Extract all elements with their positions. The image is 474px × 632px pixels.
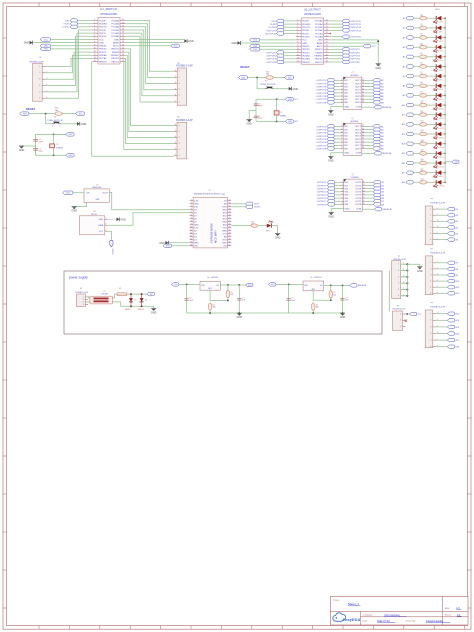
svg-text:OUT4: OUT4 <box>355 192 362 194</box>
svg-text:1: 1 <box>106 218 107 220</box>
svg-text:OUT5: OUT5 <box>355 93 362 95</box>
svg-text:Drawn By:: Drawn By: <box>406 620 416 623</box>
svg-text:5: 5 <box>430 287 431 289</box>
module U9 pins <box>190 200 232 248</box>
capacitor C1 <box>33 139 38 141</box>
svg-text:GND: GND <box>328 216 334 219</box>
resistor R15 led <box>420 152 427 156</box>
svg-text:PB0/CP: PB0/CP <box>99 61 107 63</box>
resistor R13 <box>208 303 212 310</box>
wire A11 to resistor <box>413 114 419 116</box>
svg-text:FM4007: FM4007 <box>138 309 144 311</box>
wire A9 to resistor <box>413 94 419 96</box>
svg-text:U5: U5 <box>310 277 312 279</box>
svg-text:14: 14 <box>363 191 365 193</box>
wire U7 VOUT to ESP <box>109 192 189 209</box>
svg-text:OUTPUT4: OUTPUT4 <box>316 136 327 138</box>
junction C8 top <box>342 285 344 287</box>
svg-text:24: 24 <box>122 48 124 50</box>
ground flag right of U1_SWITCH <box>184 39 187 43</box>
svg-text:TITLE:: TITLE: <box>333 600 340 602</box>
svg-text:GND: GND <box>120 218 126 221</box>
svg-text:VCC: VCC <box>66 193 71 195</box>
wire U8 VCC flag <box>107 231 111 240</box>
svg-text:2: 2 <box>430 268 431 270</box>
svg-text:2: 2 <box>341 128 342 130</box>
wire J1 pin2 to U1_SWITCH <box>45 55 92 73</box>
wire power bottom rail <box>187 312 345 314</box>
svg-text:OSC: OSC <box>69 155 74 157</box>
svg-text:REV:: REV: <box>445 608 450 610</box>
svg-text:1: 1 <box>430 313 431 315</box>
wire resistor to LED6 <box>427 66 437 68</box>
svg-text:13: 13 <box>297 57 299 59</box>
fuse F1 <box>117 293 127 296</box>
svg-text:Q?: Q? <box>351 72 354 74</box>
svg-text:2: 2 <box>39 72 40 74</box>
svg-text:4: 4 <box>342 191 343 193</box>
svg-text:A3: A3 <box>403 36 405 39</box>
svg-text:5: 5 <box>341 92 342 94</box>
net port OUTPUT15 <box>342 35 349 38</box>
resistor R14 <box>329 291 333 298</box>
wire LED6 to rail <box>441 66 445 68</box>
wire top rail power <box>127 293 147 295</box>
resistor R9 led <box>420 94 427 98</box>
svg-text:A4: A4 <box>403 46 405 49</box>
junction R15 rail <box>312 312 314 314</box>
svg-text:7: 7 <box>191 218 192 220</box>
wire resistor to LED18 <box>427 181 437 183</box>
svg-text:RV2DB3 0-0-6P: RV2DB3 0-0-6P <box>176 120 193 122</box>
svg-text:27: 27 <box>326 57 328 59</box>
wire P4 pin6 <box>436 239 448 241</box>
svg-text:13: 13 <box>362 131 364 133</box>
junction reset right <box>256 77 258 79</box>
driver Q2 body <box>343 123 362 155</box>
LED18 <box>435 180 437 185</box>
regulator U4 body <box>200 281 220 290</box>
wire Q3 output 2 <box>365 185 373 187</box>
resistor R18 led <box>420 181 427 185</box>
svg-text:14: 14 <box>362 89 364 91</box>
svg-text:PC1/A1: PC1/A1 <box>315 32 323 35</box>
resistor R11 <box>266 76 274 80</box>
net port OUTPUT12 <box>342 22 349 25</box>
net port Q2 IN6 <box>327 141 334 144</box>
wire Q3 output 7 <box>365 200 373 202</box>
svg-text:3.3V: 3.3V <box>223 234 228 236</box>
ground flag crystal right <box>247 119 252 121</box>
svg-text:OUT3: OUT3 <box>355 188 362 190</box>
svg-text:17: 17 <box>326 26 328 28</box>
resistor R17 led <box>420 171 427 175</box>
svg-text:22: 22 <box>326 42 328 44</box>
svg-text:GND: GND <box>302 43 307 45</box>
svg-text:26: 26 <box>229 227 231 229</box>
net port RST U1_OUTPUT <box>276 19 283 22</box>
junction gnd U4 <box>238 312 240 314</box>
wire C5 branch <box>186 284 188 313</box>
junction D2 top <box>141 293 143 295</box>
svg-text:PC4/A4: PC4/A4 <box>315 23 323 26</box>
wire button to gnd right <box>273 88 289 90</box>
net port OUTPUT14 <box>342 29 349 32</box>
wire U1_OUTPUT GND left <box>241 42 296 44</box>
wire P4 pin1 <box>436 208 448 210</box>
net port A13 <box>406 132 413 135</box>
net port Q1 IN1 <box>327 79 334 82</box>
net port Q2 RELAY <box>374 152 381 155</box>
svg-text:A13: A13 <box>402 133 405 136</box>
svg-text:power supply: power supply <box>69 276 88 280</box>
resistor R14 led <box>420 142 427 146</box>
wire A5 to resistor <box>413 56 419 58</box>
svg-text:6: 6 <box>403 294 404 296</box>
svg-text:ATMEGA328: ATMEGA328 <box>100 12 117 16</box>
svg-text:OUTPUT14: OUTPUT14 <box>350 30 362 32</box>
LED17 <box>435 170 437 175</box>
svg-text:ULN2803: ULN2803 <box>350 75 358 77</box>
svg-text:1: 1 <box>342 181 343 183</box>
svg-text:ADJ: ADJ <box>312 288 315 291</box>
junction LED9 rail <box>444 95 446 97</box>
svg-text:GND: GND <box>344 153 349 155</box>
svg-text:GND: GND <box>293 88 299 91</box>
svg-text:2: 2 <box>191 203 192 205</box>
svg-text:11: 11 <box>362 79 364 81</box>
svg-text:13: 13 <box>363 187 365 189</box>
net port A18 <box>406 181 413 184</box>
resistor R3 led <box>420 36 427 40</box>
svg-text:20: 20 <box>122 35 124 37</box>
wire Q3 output 1 <box>365 181 373 183</box>
svg-text:LED15: LED15 <box>439 157 444 159</box>
wire LED4 to rail <box>441 46 445 48</box>
net port A6 <box>406 65 413 68</box>
wire Q1 com <box>362 106 374 108</box>
svg-text:25: 25 <box>229 224 231 226</box>
connector P3 body <box>393 311 403 330</box>
svg-text:RV2DB3 0-0-6P: RV2DB3 0-0-6P <box>430 253 445 255</box>
svg-text:5: 5 <box>191 212 192 214</box>
mcu U1_OUTPUT body <box>301 18 324 64</box>
wire U1_OUTPUT OSC2 left <box>260 48 296 50</box>
svg-text:8: 8 <box>342 203 343 205</box>
svg-text:1: 1 <box>175 154 176 156</box>
svg-text:DATA: DATA <box>98 224 104 227</box>
net port Q2 OUT2 <box>373 128 380 131</box>
svg-text:6: 6 <box>341 95 342 97</box>
wire crystal bottom rail left <box>36 154 66 156</box>
svg-text:S?: S? <box>103 291 105 293</box>
resistor R8 led <box>420 84 427 88</box>
driver Q3 body <box>344 179 363 211</box>
svg-text:30: 30 <box>229 239 231 241</box>
svg-text:Q?: Q? <box>351 118 354 120</box>
svg-text:9: 9 <box>191 224 192 226</box>
svg-text:6: 6 <box>191 215 192 217</box>
svg-text:PD7/A1: PD7/A1 <box>99 57 107 60</box>
svg-text:18: 18 <box>229 203 231 205</box>
wire Q2 com <box>362 152 374 154</box>
junction LED5 rail <box>444 56 446 58</box>
svg-text:8: 8 <box>297 42 298 44</box>
svg-text:3: 3 <box>430 274 431 276</box>
svg-text:TX-RX2: TX-RX2 <box>254 207 261 209</box>
junction LED1 rail <box>444 17 446 19</box>
net port OUTPUT2 <box>342 51 349 54</box>
module U9 ESP8266 body <box>193 198 228 248</box>
svg-text:3: 3 <box>342 187 343 189</box>
svg-text:RV2DB3 0-0-6P: RV2DB3 0-0-6P <box>176 66 193 68</box>
mcu U1_SWITCH body <box>98 18 120 65</box>
resistor R1 led <box>420 16 427 20</box>
driver Q2 pins <box>341 124 365 155</box>
resistor R6 led <box>420 65 427 69</box>
svg-text:PC2/A2: PC2/A2 <box>315 29 323 32</box>
net port A15 <box>406 152 413 155</box>
svg-text:24: 24 <box>229 221 231 223</box>
junction crystal top right <box>276 98 278 100</box>
ground flag P2 <box>417 266 422 268</box>
wire RST row left <box>29 113 76 115</box>
svg-text:18: 18 <box>362 101 364 103</box>
wire U1_OUTPUT left output flag 5 <box>284 52 296 54</box>
wire LED1 to rail <box>441 17 445 19</box>
connector J2 body <box>177 68 187 105</box>
net port A12 <box>406 123 413 126</box>
junction LED6 rail <box>444 66 446 68</box>
svg-text:OUTPUT3: OUTPUT3 <box>316 133 327 135</box>
svg-text:OSC: OSC <box>253 49 258 51</box>
svg-text:GND: GND <box>340 316 346 319</box>
svg-text:5: 5 <box>175 76 176 78</box>
svg-text:15: 15 <box>363 194 365 196</box>
svg-text:GND: GND <box>99 219 104 221</box>
svg-text:TX-RX2: TX-RX2 <box>62 27 70 29</box>
svg-text:U4: U4 <box>207 277 209 279</box>
wire U1_SWITCH pin23 to J2 <box>125 36 174 102</box>
net port TX-RX <box>70 22 77 25</box>
svg-text:VCC: VCC <box>79 113 84 115</box>
svg-text:NET1: NET1 <box>266 231 270 233</box>
wire U1_OUTPUT left output flag 6 <box>284 55 296 57</box>
wire LED8 to rail <box>441 85 445 87</box>
svg-text:AVCC: AVCC <box>113 45 119 48</box>
wire Q1 output 8 <box>364 101 372 103</box>
svg-text:27: 27 <box>229 230 231 232</box>
resistor R12 led <box>420 123 427 127</box>
wire Q2 input 1 <box>334 125 340 127</box>
svg-text:XC1: XC1 <box>294 99 298 101</box>
svg-text:29: 29 <box>229 236 231 238</box>
wire U1_OUTPUT right flag OUTPUT15 <box>329 36 342 38</box>
net port Q1 IN6 <box>327 94 334 97</box>
junction LED18 rail <box>444 181 446 183</box>
svg-text:S1: S1 <box>265 81 267 83</box>
svg-text:LED2: LED2 <box>439 31 443 33</box>
ground flag U1_OUTPUT left <box>237 41 240 45</box>
svg-text:PC5/A5: PC5/A5 <box>111 19 119 22</box>
svg-text:A18: A18 <box>402 181 405 184</box>
svg-text:VCC: VCC <box>302 40 307 42</box>
svg-text:PD4/T0: PD4/T0 <box>99 36 107 38</box>
net port TX-RX2 <box>70 25 77 28</box>
junction adj U5 <box>330 299 332 301</box>
svg-text:OUTPUT4: OUTPUT4 <box>317 192 328 194</box>
wire bottom rail power <box>121 305 154 307</box>
wire crystal left branch <box>35 134 37 155</box>
net port OUTPUT6 <box>276 54 283 57</box>
net port Q2 OUT8 <box>373 147 380 150</box>
wire resistor to LED12 <box>427 123 437 125</box>
LED4 <box>435 45 437 50</box>
svg-text:PC0/A0: PC0/A0 <box>315 36 323 39</box>
net port P4 pin3 <box>447 220 454 223</box>
wire switch to bottom rail <box>112 302 120 306</box>
junction LED8 rail <box>444 85 446 87</box>
svg-text:17: 17 <box>362 144 364 146</box>
wire Q2 input 3 <box>334 132 340 134</box>
svg-text:2: 2 <box>175 148 176 150</box>
net port VCC below U8 <box>110 240 113 247</box>
svg-text:LED16: LED16 <box>439 166 444 168</box>
wire resistor to LED15 <box>427 152 437 154</box>
svg-text:21: 21 <box>122 38 124 40</box>
svg-text:11: 11 <box>363 181 365 183</box>
svg-text:PB6/X1: PB6/X1 <box>99 46 107 48</box>
svg-text:VCC: VCC <box>248 285 253 287</box>
svg-text:PD7/A1: PD7/A1 <box>302 58 310 61</box>
svg-text:20: 20 <box>326 35 328 37</box>
net port Q3 IN5 <box>327 193 334 196</box>
svg-text:PB3/MO: PB3/MO <box>111 55 120 57</box>
svg-text:A2: A2 <box>403 27 405 30</box>
svg-text:2: 2 <box>398 270 399 272</box>
svg-text:19: 19 <box>229 206 231 208</box>
wire Q1 gnd <box>331 107 343 111</box>
net port Q3 IN8 <box>327 203 334 206</box>
svg-text:PB5/CK: PB5/CK <box>315 49 323 51</box>
svg-text:OUTPUT5: OUTPUT5 <box>350 62 361 64</box>
svg-text:VIN: VIN <box>194 246 198 248</box>
connector J1 body <box>33 63 43 101</box>
svg-text:GND: GND <box>99 42 104 44</box>
wire D1 branch <box>130 294 132 306</box>
junction reset left <box>45 113 47 115</box>
svg-text:16MHZ: 16MHZ <box>280 116 287 118</box>
wire Q3 input 3 <box>335 188 341 190</box>
connector P4 pins <box>430 208 438 241</box>
junction crystal top left <box>53 134 55 136</box>
junction D1 top <box>130 293 132 295</box>
svg-text:OUTPUT4: OUTPUT4 <box>316 90 327 92</box>
svg-text:LED17: LED17 <box>439 176 444 178</box>
LED14 <box>435 141 437 146</box>
svg-text:OUT8: OUT8 <box>355 204 362 206</box>
svg-text:OUT4: OUT4 <box>355 136 362 138</box>
wire P5 pin3 <box>436 274 448 276</box>
net port Q2 OUT5 <box>373 137 380 140</box>
wire A1 to resistor <box>413 17 419 19</box>
svg-text:OUTPUT1: OUTPUT1 <box>317 182 328 184</box>
svg-text:19: 19 <box>122 32 124 34</box>
svg-text:PD4/T0: PD4/T0 <box>302 37 310 39</box>
wire crystal Y1 vertical <box>53 134 55 155</box>
svg-text:GND: GND <box>194 243 199 245</box>
wire Q1 output 3 <box>364 86 372 88</box>
ground flag status led <box>275 232 280 234</box>
net port P4 pin1 <box>447 207 454 210</box>
wire reset to button right <box>257 78 265 89</box>
wire U1_SWITCH pin26 to J2 <box>125 27 174 84</box>
svg-text:RV2DB3 0-0-6P: RV2DB3 0-0-6P <box>430 307 445 309</box>
wire U1_OUTPUT left output flag 7 <box>284 58 296 60</box>
svg-text:24: 24 <box>326 48 328 50</box>
svg-text:TX-RX: TX-RX <box>63 24 70 26</box>
net port RST reset left <box>20 112 29 115</box>
nc dot U1_OUTPUT pin row 4 <box>329 33 331 35</box>
svg-text:F1: F1 <box>119 288 121 290</box>
net port OUTPUT11 <box>342 19 349 22</box>
svg-text:OUTPUT3: OUTPUT3 <box>316 87 327 89</box>
net port IN U5 <box>268 283 275 286</box>
svg-text:1: 1 <box>341 125 342 127</box>
svg-text:18: 18 <box>363 203 365 205</box>
wire crystal top rail right <box>256 98 285 100</box>
svg-text:4: 4 <box>175 82 176 84</box>
svg-text:GND: GND <box>345 208 350 210</box>
wire OSC1 to pin9 <box>51 45 93 47</box>
net port Q3 OUT2 <box>373 184 380 187</box>
svg-text:AVCC: AVCC <box>317 45 323 48</box>
wire C8 branch <box>342 285 344 313</box>
svg-text:17: 17 <box>363 200 365 202</box>
crystal Y1 <box>50 144 55 148</box>
wire LED11 to rail <box>441 114 445 116</box>
wire Q2 input 7 <box>334 144 340 146</box>
wire U1_OUTPUT right output flag 2 <box>329 52 342 54</box>
svg-text:PB7/X2: PB7/X2 <box>302 49 310 51</box>
junction LED11 rail <box>444 114 446 116</box>
LED16 <box>435 161 437 166</box>
svg-text:10: 10 <box>94 48 96 50</box>
svg-text:OUT1: OUT1 <box>355 182 362 184</box>
net port Q3 OUT3 <box>373 187 380 190</box>
svg-text:CMD: CMD <box>222 222 227 224</box>
svg-text:OUTPUT13: OUTPUT13 <box>350 27 362 29</box>
svg-text:14: 14 <box>94 60 96 62</box>
switch SW1 elements <box>94 298 109 300</box>
svg-text:OUTPUT6: OUTPUT6 <box>266 56 277 58</box>
svg-text:OSC: OSC <box>44 49 49 51</box>
wire rail to gnd <box>153 306 155 308</box>
svg-text:RST: RST <box>223 240 228 242</box>
net port Q3 IN3 <box>327 187 334 190</box>
wire OSC2 to pin10 <box>51 48 93 50</box>
connector P3 pins <box>400 313 406 328</box>
wire Q3 output 5 <box>365 194 373 196</box>
wire Q2 input 5 <box>334 138 340 140</box>
net port OSC2 <box>40 47 51 50</box>
net port VCC P3 <box>409 312 416 315</box>
svg-text:OSC: OSC <box>69 134 74 136</box>
wire U1_OUTPUT right flag OUTPUT13 <box>329 26 342 28</box>
net port Q1 OUT3 <box>373 85 380 88</box>
net port Q2 OUT1 <box>373 125 380 128</box>
net port Q1 IN4 <box>327 88 334 91</box>
